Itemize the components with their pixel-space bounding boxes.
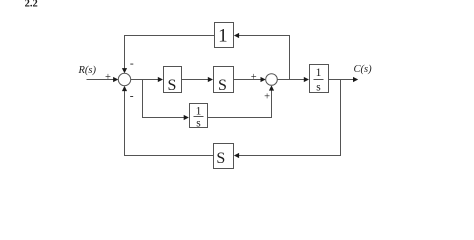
svg-text:1: 1 (218, 26, 228, 47)
svg-text:s: s (316, 82, 321, 94)
svg-text:C(s): C(s) (354, 64, 373, 75)
svg-text:+: + (264, 91, 270, 102)
svg-text:R(s): R(s) (78, 65, 97, 76)
svg-text:S: S (216, 150, 225, 167)
svg-text:1: 1 (196, 105, 202, 117)
svg-text:+: + (251, 72, 257, 83)
svg-text:S: S (218, 77, 227, 94)
svg-text:S: S (167, 77, 176, 94)
svg-text:+: + (105, 72, 111, 83)
svg-text:2.2: 2.2 (25, 0, 38, 10)
svg-text:1: 1 (316, 67, 322, 79)
svg-text:-: - (130, 58, 134, 70)
svg-text:s: s (196, 117, 201, 129)
svg-text:-: - (130, 90, 134, 102)
